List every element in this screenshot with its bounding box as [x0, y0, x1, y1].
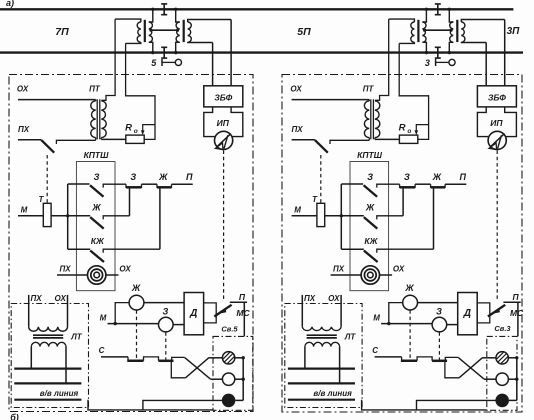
wire: line to signal lamps (left) — [88, 400, 213, 410]
front contact of Z in C row (left) — [159, 360, 174, 363]
wire: KZh contact to row (right) — [433, 187, 435, 249]
svg-text:Ж: Ж — [158, 172, 168, 182]
svg-text:ОХ: ОХ — [290, 85, 302, 94]
svg-text:КПТШ: КПТШ — [357, 150, 383, 160]
Ro tap arrow (right) — [416, 125, 428, 131]
signal lamp yellow (hatched) (right) — [496, 352, 508, 364]
svg-text:ПХ: ПХ — [59, 264, 71, 273]
svg-text:П: П — [186, 172, 193, 182]
signal lamp red (filled) (left) — [222, 394, 236, 408]
wire: Zh contact to row (left) — [129, 187, 131, 216]
svg-text:3: 3 — [425, 58, 430, 68]
wire motor to OX (left) — [106, 274, 119, 276]
svg-text:ЛТ: ЛТ — [344, 333, 356, 342]
svg-text:ЛТ: ЛТ — [70, 333, 82, 342]
svg-text:Ж: Ж — [131, 283, 141, 293]
signal lamp red (filled) (right) — [495, 394, 509, 408]
decoder block D (left) — [184, 293, 204, 335]
transformer PT (left) — [91, 101, 96, 138]
svg-text:а): а) — [6, 0, 14, 8]
front contact Zh (signal relay row) (right) — [415, 183, 431, 185]
block ZBF (left) — [204, 86, 243, 107]
wire: transformer to Ro resistor loop (right) — [399, 43, 428, 139]
insulated rail joint, rail 2 (right) — [435, 47, 441, 58]
indicator lamp IP (left) — [215, 131, 233, 149]
svg-text:Д: Д — [463, 308, 471, 319]
wire motor to OX (right) — [380, 274, 393, 276]
wire OX (right) — [292, 99, 370, 101]
code transmitter motor (left) — [88, 266, 106, 284]
transformer PT (right) — [364, 101, 369, 138]
svg-text:ПТ: ПТ — [363, 85, 375, 94]
wire PX into LT (right) — [301, 295, 303, 327]
contact KZh of KPTSh (right) — [341, 248, 364, 250]
svg-text:Ж: Ж — [365, 203, 375, 213]
wire: relay Z to block D (left) — [173, 324, 184, 326]
svg-text:Ж: Ж — [404, 283, 414, 293]
signal lamp green (open) (right) — [496, 373, 508, 385]
svg-text:П: П — [239, 292, 246, 302]
dashed link: relay Z to C contact (right) — [438, 332, 440, 359]
front contact of Zh in C row (left) — [128, 357, 159, 361]
svg-text:5П: 5П — [297, 26, 311, 38]
wire: relay Zh to block D (right) — [418, 302, 458, 304]
svg-text:ПХ: ПХ — [304, 294, 316, 303]
wire: relay Zh to block D (left) — [144, 302, 184, 304]
crossing wires to lamps (right) — [458, 358, 484, 379]
relay Z (left) — [159, 317, 174, 332]
front contact Z (signal relay row) (left) — [126, 184, 142, 187]
svg-text:З: З — [436, 307, 442, 317]
wire: transformer to ZBF left (right) — [485, 43, 487, 86]
dashed link: relay Z to C contact (left) — [165, 332, 167, 359]
dashed link: contact to relay T (left) — [46, 155, 48, 203]
track transformer unit 2 (right pair, right of insulated joint) — [450, 22, 454, 42]
svg-text:ИП: ИП — [217, 118, 230, 128]
junction column (right) — [340, 184, 342, 249]
rail jumper between transformer windings (left) — [150, 29, 179, 31]
wire PX with contact of relay T (right) — [292, 139, 315, 141]
rail junction dots (right) — [425, 8, 428, 11]
rail jumper between transformer windings (right) — [424, 29, 453, 31]
wires: D outputs (left) — [204, 303, 217, 323]
wire M row (left) — [108, 323, 159, 325]
block IP bracket (left) — [204, 107, 215, 137]
contact KZh of KPTSh (left) — [68, 248, 91, 250]
wire: Zh contact to row (right) — [402, 187, 404, 216]
svg-text:КЖ: КЖ — [364, 236, 378, 246]
dashed link: IP to MS contact (left) — [223, 151, 225, 301]
insulated rail joint, rail 1 (left) — [161, 4, 167, 15]
wire: transformer to ZBF left (left) — [212, 43, 214, 86]
svg-text:о: о — [134, 128, 138, 135]
relay T (right) — [317, 203, 325, 226]
wire relay T to column (right) — [325, 215, 342, 217]
signal cable box (right) — [487, 336, 517, 410]
svg-text:Д: Д — [189, 308, 197, 319]
wire to pole P (right) — [445, 183, 466, 185]
track transformer unit 1 (left pair, left of insulated joint) — [137, 22, 141, 42]
svg-text:З: З — [367, 172, 373, 182]
svg-text:в/в линия: в/в линия — [40, 389, 79, 398]
signal point equipment box (left) — [9, 75, 253, 412]
wire M to relay T (right) — [292, 215, 317, 217]
svg-text:МС: МС — [510, 308, 524, 318]
svg-text:С: С — [99, 346, 105, 355]
svg-text:ЗБФ: ЗБФ — [488, 93, 506, 103]
contact Z of KPTSh (right) — [341, 183, 363, 185]
svg-text:ОХ: ОХ — [393, 264, 405, 273]
rail 1 — [0, 8, 513, 10]
insulated rail joint, rail 1 (right) — [435, 4, 441, 15]
svg-text:ОХ: ОХ — [119, 264, 131, 273]
code transmitter motor (right) — [361, 266, 379, 284]
wire to pole P after MS (left) — [230, 301, 247, 303]
svg-text:З: З — [130, 172, 136, 182]
svg-text:Ж: Ж — [91, 203, 101, 213]
front contact Z (signal relay row) (right) — [400, 184, 416, 187]
svg-text:ПХ: ПХ — [30, 294, 42, 303]
lamp return wires (left) — [235, 357, 243, 359]
svg-text:Св.5: Св.5 — [221, 324, 238, 333]
svg-text:ОХ: ОХ — [55, 294, 67, 303]
svg-text:3П: 3П — [507, 26, 521, 37]
svg-text:П: П — [460, 172, 467, 182]
svg-text:7П: 7П — [55, 26, 69, 38]
LT secondary leads (right) — [304, 347, 306, 369]
svg-text:МС: МС — [236, 308, 250, 318]
dashed link: IP to MS contact (right) — [496, 151, 498, 301]
resistor Ro (right) — [399, 135, 417, 143]
Ro tap arrow (left) — [143, 125, 155, 131]
signal cable box (left) — [213, 336, 253, 410]
signal lamp yellow (hatched) (left) — [222, 352, 234, 364]
svg-text:КПТШ: КПТШ — [84, 150, 110, 160]
svg-text:ПХ: ПХ — [292, 125, 304, 134]
contact Zh of KPTSh (left) — [68, 215, 91, 217]
wire: KZh contact to row (left) — [159, 187, 161, 249]
relay block KPTSh (left) — [76, 162, 115, 291]
wire: PT to Ro (left) — [101, 138, 126, 140]
wire relay T to column (left) — [51, 215, 68, 217]
svg-text:З: З — [94, 172, 100, 182]
rail 2 — [0, 51, 523, 53]
relay Z (right) — [432, 317, 447, 332]
svg-text:М: М — [21, 206, 28, 215]
wire: transformer to Ro resistor loop (left) — [126, 43, 155, 139]
svg-text:КЖ: КЖ — [91, 236, 105, 246]
contact Z of KPTSh (left) — [68, 183, 90, 185]
wire to pole P after MS (right) — [503, 301, 520, 303]
wire OX into LT (right) — [340, 295, 342, 327]
dashed link: contact to relay T (right) — [320, 155, 322, 203]
relay Zh (right) — [403, 295, 418, 310]
svg-text:ОХ: ОХ — [328, 294, 340, 303]
front contact of Zh in C row (right) — [402, 357, 433, 361]
wire OX (left) — [18, 99, 96, 101]
svg-text:М: М — [100, 314, 107, 323]
svg-text:о: о — [407, 128, 411, 135]
wire: transformer to PT primary (right) — [375, 19, 389, 100]
track transformer unit 2 (left pair, right of insulated joint) — [176, 22, 180, 42]
dashed link: relay Zh to C contact (left) — [136, 310, 138, 359]
signal mast symbol (right) — [435, 59, 437, 66]
front contact Zh (signal relay row) (left) — [142, 183, 158, 185]
signal lamp green (open) (left) — [222, 373, 234, 385]
track transformer unit 1 (right pair, left of insulated joint) — [411, 22, 415, 42]
transformer LT (right) — [302, 327, 341, 331]
wire: transformer to ZBF right (right) — [504, 20, 506, 86]
svg-text:ПХ: ПХ — [18, 125, 30, 134]
svg-text:ПТ: ПТ — [89, 85, 101, 94]
front contact of Z in C row (right) — [432, 360, 447, 363]
branch below C contacts (left) — [171, 362, 185, 378]
svg-text:З: З — [404, 172, 410, 182]
svg-text:С: С — [372, 346, 378, 355]
wire: MS to signal cable box (left) — [243, 302, 245, 336]
svg-text:З: З — [163, 307, 169, 317]
wire OX into LT (left) — [67, 295, 69, 327]
svg-text:б): б) — [10, 413, 19, 420]
LT secondary leads (left) — [30, 347, 32, 369]
line bus wires (right) — [288, 368, 355, 370]
contact MS (left) — [214, 305, 231, 317]
lamp return wires (right) — [508, 357, 516, 359]
block IP bracket (right) — [477, 107, 488, 137]
svg-text:М: М — [373, 314, 380, 323]
signal mast symbol (left) — [161, 59, 163, 66]
wire C (left) — [101, 356, 128, 358]
crossing wires to lamps (left) — [185, 358, 211, 379]
decoder block D (right) — [458, 293, 478, 335]
wire PX to motor (left) — [57, 274, 88, 276]
svg-text:М: М — [294, 206, 301, 215]
svg-text:R: R — [399, 123, 406, 134]
svg-text:ИП: ИП — [490, 118, 503, 128]
relay block KPTSh (right) — [350, 162, 389, 291]
wire: transformer to ZBF right (left) — [230, 20, 232, 86]
junction column (left) — [67, 184, 69, 249]
wire M row (right) — [381, 323, 432, 325]
wire C (right) — [375, 356, 402, 358]
line transformer box (right) — [285, 304, 362, 408]
relay T (left) — [43, 203, 51, 226]
svg-text:в/в линия: в/в линия — [313, 389, 352, 398]
wire: transformer to PT primary (left) — [101, 19, 115, 100]
wire PX to motor (right) — [331, 274, 362, 276]
contact MS (right) — [488, 305, 505, 317]
wires: D outputs (right) — [477, 303, 490, 323]
svg-text:ЗБФ: ЗБФ — [214, 93, 232, 103]
wire to pole P (left) — [172, 183, 193, 185]
svg-text:Св.3: Св.3 — [494, 324, 511, 333]
transformer LT (left) — [29, 327, 68, 331]
contact Zh of KPTSh (right) — [341, 215, 364, 217]
line bus wires (left) — [14, 368, 81, 370]
indicator lamp IP (right) — [488, 131, 506, 149]
svg-text:R: R — [125, 123, 132, 134]
branch below C contacts (right) — [445, 362, 459, 378]
svg-text:П: П — [512, 292, 519, 302]
wire: relay Z to block D (right) — [447, 324, 458, 326]
wire: MS to signal cable box (right) — [517, 302, 519, 336]
wire: PT to Ro (right) — [375, 138, 400, 140]
svg-text:ПХ: ПХ — [333, 264, 345, 273]
wire M to relay T (left) — [18, 215, 43, 217]
wire PX with contact of relay T (left) — [18, 139, 41, 141]
dashed link: relay Zh to C contact (right) — [409, 310, 411, 359]
line transformer box (left) — [11, 304, 88, 408]
signal point equipment box (right) — [282, 75, 522, 413]
block ZBF (right) — [477, 86, 516, 107]
rail junction dots (left) — [151, 8, 154, 11]
wire PX into LT (left) — [28, 295, 30, 327]
insulated rail joint, rail 2 (left) — [161, 47, 167, 58]
svg-text:ОХ: ОХ — [17, 85, 29, 94]
resistor Ro (left) — [126, 135, 144, 143]
wire: line to signal lamps (right) — [362, 400, 487, 410]
relay Zh (left) — [129, 295, 144, 310]
svg-text:Ж: Ж — [432, 172, 442, 182]
